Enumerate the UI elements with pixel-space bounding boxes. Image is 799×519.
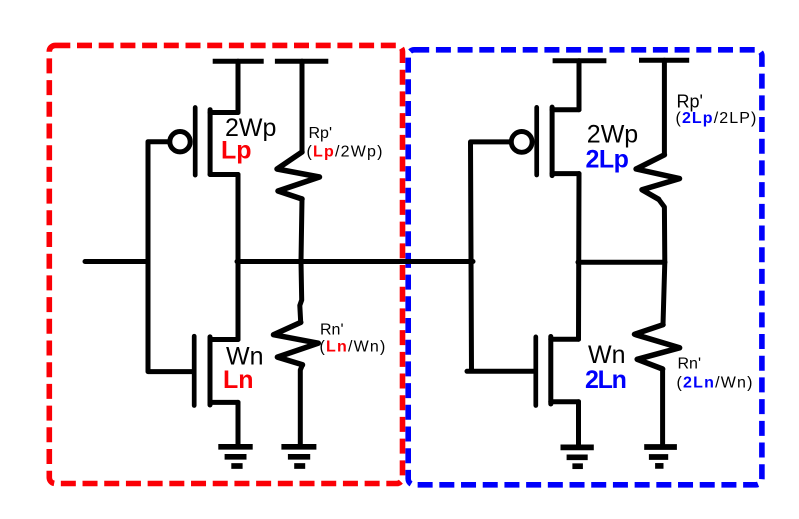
wire Rp' right to output node xyxy=(659,199,665,262)
transistor M1 gate bubble xyxy=(170,132,190,152)
wire Rn' right to ground xyxy=(660,369,665,445)
wire Rn' to ground xyxy=(300,365,302,445)
transistor M3 drain stub xyxy=(552,171,579,176)
svg-text:Wn: Wn xyxy=(588,341,626,369)
transistor M2 NMOS left: gate bar xyxy=(192,336,197,405)
transistor M2 drain stub xyxy=(210,337,238,342)
red dashed box (first inverter stage) xyxy=(49,45,402,483)
VDD bar left resistor xyxy=(275,59,328,64)
svg-text:Rp': Rp' xyxy=(309,125,333,142)
VDD bar left PMOS xyxy=(213,59,264,64)
VDD bar right PMOS xyxy=(553,58,607,63)
wire Rp' to output node xyxy=(301,199,302,262)
VDD bar right resistor xyxy=(639,58,689,63)
wire gate connection left inverter xyxy=(148,142,192,372)
svg-text:Lp: Lp xyxy=(221,137,252,165)
svg-text:2Lp: 2Lp xyxy=(586,145,629,173)
wire VDD to PMOS2 source xyxy=(577,61,582,110)
svg-text:Ln: Ln xyxy=(223,366,254,394)
transistor M4 channel bar xyxy=(548,337,553,405)
transistor M4 drain stub xyxy=(551,337,579,342)
transistor M3 gate bubble xyxy=(511,132,532,153)
svg-text:(Ln/Wn): (Ln/Wn) xyxy=(320,339,387,356)
transistor M1 gate bar xyxy=(193,108,198,176)
wire VDD to resistor Rp' right xyxy=(662,60,667,155)
wire M3 drain down to output node xyxy=(576,174,582,340)
wire M4 source to ground xyxy=(576,402,581,446)
transistor M3 channel bar xyxy=(550,107,555,176)
wire VDD to PMOS1 source xyxy=(236,61,241,112)
svg-text:2Wp: 2Wp xyxy=(587,120,638,148)
resistor Rn' left zigzag xyxy=(274,322,319,364)
transistor M2 channel bar xyxy=(208,337,213,405)
wire gate connection right inverter xyxy=(467,142,534,371)
wire M1 drain down to output node xyxy=(236,175,241,340)
resistor Rp' right zigzag xyxy=(636,155,679,199)
wire input stub xyxy=(85,259,148,264)
svg-text:(2Lp/2LP): (2Lp/2LP) xyxy=(676,110,758,127)
ground M4 xyxy=(561,445,594,451)
wire output node to Rn' left xyxy=(300,262,302,323)
svg-text:2Ln: 2Ln xyxy=(585,366,626,394)
ground Rn' right xyxy=(644,444,677,450)
ground M2 xyxy=(218,444,252,450)
svg-text:Rp': Rp' xyxy=(677,92,703,112)
wire output node to Rn' right xyxy=(663,262,665,325)
svg-text:Rn': Rn' xyxy=(678,356,702,373)
transistor M3 PMOS right: source stub xyxy=(552,107,579,112)
transistor M2 source stub xyxy=(210,400,238,405)
wire output node (stage1 out to stage2 gate) xyxy=(237,259,473,264)
transistor M1 channel bar xyxy=(208,110,213,175)
transistor M1 drain stub xyxy=(210,172,238,177)
wire output node stage2 xyxy=(578,260,665,265)
svg-text:(Lp/2Wp): (Lp/2Wp) xyxy=(307,144,384,161)
resistor Rn' right zigzag xyxy=(635,325,680,369)
svg-text:(2Ln/Wn): (2Ln/Wn) xyxy=(677,374,754,391)
wire VDD to resistor Rp' left xyxy=(300,61,305,152)
transistor M4 NMOS right: gate bar xyxy=(533,337,538,406)
svg-text:Rn': Rn' xyxy=(320,322,344,339)
ground Rn' left xyxy=(281,444,316,450)
transistor M4 source stub xyxy=(551,399,579,404)
transistor M3 gate bar xyxy=(534,107,539,175)
transistor M1 PMOS left: source stub xyxy=(210,110,238,115)
resistor Rp' left zigzag xyxy=(277,152,320,199)
wire M2 source to ground xyxy=(236,402,241,445)
blue dashed box (second inverter stage) xyxy=(408,50,762,485)
